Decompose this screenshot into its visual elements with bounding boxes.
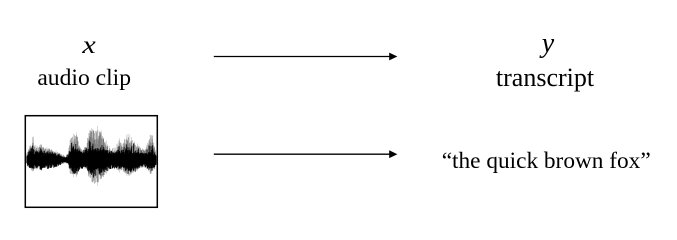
arrow from audio clip to transcript example — [214, 150, 398, 158]
node x (input variable label) — [83, 32, 96, 58]
label quoted transcript example — [442, 150, 651, 173]
arrow from x to y — [214, 53, 398, 61]
audio clip image frame — [25, 116, 157, 208]
node y (output variable label) — [542, 30, 554, 58]
label audio clip — [37, 67, 131, 91]
audio waveform — [27, 126, 156, 186]
label transcript — [496, 65, 594, 91]
